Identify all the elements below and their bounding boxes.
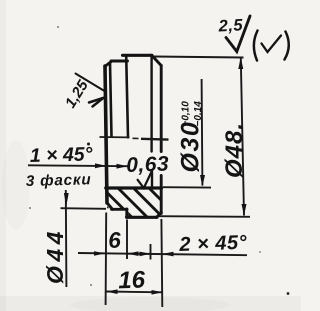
chain arrow right at left face ext [94, 251, 105, 256]
extension line step [126, 220, 128, 260]
right face upper [160, 66, 163, 152]
bore wall / section top edge [106, 186, 162, 189]
Ø30 extension line [163, 186, 211, 188]
16 left arrow [106, 289, 117, 294]
right face lower stub [160, 176, 163, 189]
1x45 arrow at face [95, 163, 106, 168]
chamfer top-left 1x45 [105, 61, 112, 67]
text Ø48 rotated [221, 122, 248, 178]
svg-text:2 × 45°: 2 × 45° [178, 232, 248, 256]
svg-text:3 фаски: 3 фаски [26, 171, 92, 190]
arrowheads [64, 57, 247, 294]
svg-text:6: 6 [108, 228, 122, 253]
6 right arrow [140, 252, 151, 257]
centerline dash-dot [87, 137, 169, 146]
Ø48 bottom arrow [242, 204, 247, 216]
svg-text:2,5: 2,5 [217, 16, 244, 35]
1x45 second arrow [117, 164, 128, 169]
right face of section [160, 188, 163, 214]
chamfer edge line lower stub [151, 172, 153, 188]
section hatching [86, 187, 196, 219]
scan specks [29, 26, 289, 295]
step top edge (Ø44 collar) [111, 60, 128, 63]
Ø44 dimension line [65, 190, 68, 287]
svg-text:16: 16 [118, 266, 146, 294]
part body outline: stepped bushing, side view upper half [105, 55, 162, 217]
left face [105, 66, 107, 203]
16 dimension line [106, 291, 163, 294]
main top edge (Ø48) [123, 54, 153, 57]
extension line left face [105, 213, 108, 306]
step riser edge [126, 56, 128, 137]
top extension line (Ø48 upper) [154, 57, 244, 58]
svg-text:0,63: 0,63 [126, 152, 170, 176]
chamfer top-right 2x45 [152, 55, 162, 65]
roughness mark 2,5 over Ø48 extension [226, 16, 250, 52]
svg-text:−0,14: −0,14 [193, 101, 204, 127]
Ø30 dimension line [201, 79, 204, 186]
Ø44 extension line [61, 207, 107, 210]
Ø48 top arrow [238, 57, 243, 69]
chamfer bottom-right [157, 213, 162, 218]
text Ø30 with tolerances rotated [177, 101, 205, 173]
bottom extension line (Ø48 lower) [159, 215, 251, 218]
text Ø44 rotated [42, 227, 68, 284]
16 right arrow [152, 290, 163, 295]
Ø44 down arrow [64, 193, 69, 207]
1x45 leader line [28, 164, 128, 167]
chamfer bottom-left [107, 203, 113, 210]
2x45 leader arrow [162, 252, 174, 257]
thin dimension and extension lines [28, 57, 250, 308]
left chamfer edge line [110, 63, 112, 137]
main bottom edge [127, 216, 158, 219]
chamfer edge line [150, 56, 152, 152]
svg-text:1 × 45°: 1 × 45° [30, 143, 93, 167]
svg-text:Ø44: Ø44 [42, 227, 68, 284]
Ø48 dimension line [241, 59, 244, 216]
svg-text:−0,10: −0,10 [181, 101, 192, 127]
svg-text:Ø48.: Ø48. [221, 122, 248, 178]
extension line chamfer edge [150, 244, 152, 260]
chain dimension line 6 / 2x45 [78, 253, 247, 255]
step-down riser bottom [125, 209, 128, 217]
6 left arrow [127, 251, 138, 256]
roughness mark in parentheses [254, 31, 289, 61]
roughness mark 1,25 on left face [76, 74, 104, 107]
Ø30 bottom arrow [200, 175, 205, 187]
svg-text:Ø30: Ø30 [177, 121, 205, 173]
step bottom edge [112, 208, 128, 211]
roughness mark 0,63 on bore wall [138, 170, 153, 189]
extension line right face [160, 219, 163, 307]
